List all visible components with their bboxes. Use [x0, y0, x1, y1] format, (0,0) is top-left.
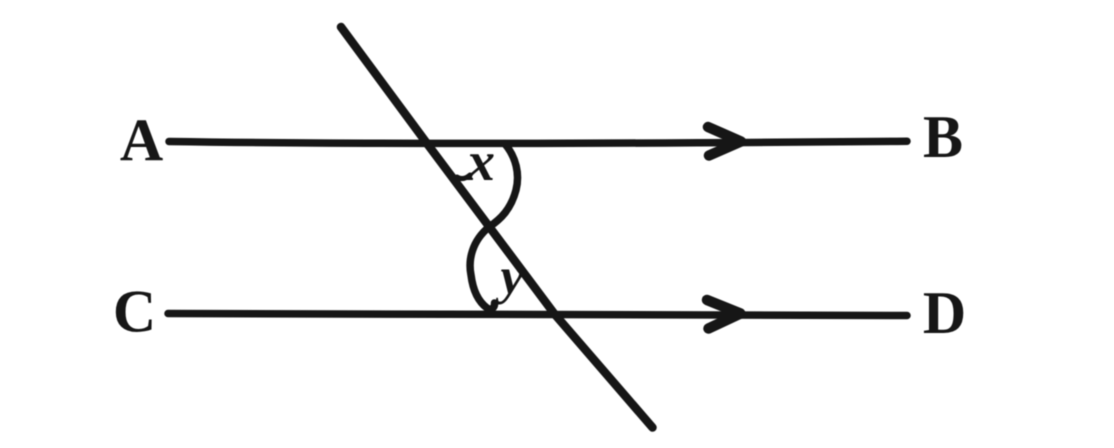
label x swash tail: [457, 175, 470, 179]
svg-text:y: y: [494, 249, 524, 306]
svg-text:B: B: [923, 104, 963, 170]
wire transversal: [341, 27, 653, 428]
svg-text:A: A: [120, 107, 163, 173]
wire line AB: [169, 141, 907, 143]
angle arc x: [489, 144, 518, 227]
wire line CD: [168, 314, 907, 316]
svg-text:D: D: [923, 280, 966, 346]
svg-text:x: x: [466, 131, 495, 193]
svg-text:C: C: [113, 279, 156, 345]
arrowhead on CD: [707, 300, 741, 329]
angle arc y: [470, 227, 494, 309]
arrowhead on AB: [708, 127, 741, 156]
